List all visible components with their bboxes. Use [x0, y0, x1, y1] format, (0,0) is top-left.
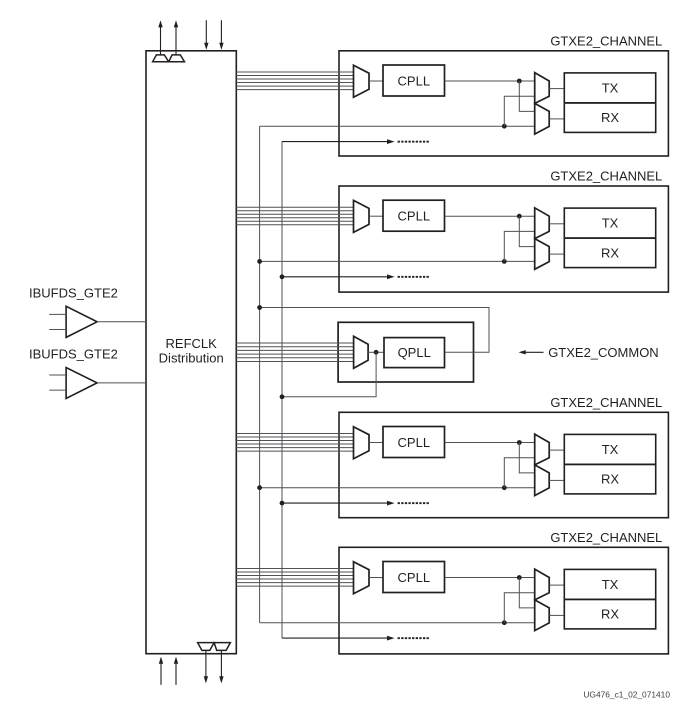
wire: refclk bundle to CPLL mux (6 lines) [236, 568, 353, 570]
wire: top output arrow 1 [160, 27, 162, 55]
wire: refclk bundle to CPLL mux (6 lines) [236, 433, 353, 435]
op-amp CPLL box [383, 65, 445, 96]
wire: top input arrow 2 [220, 20, 222, 44]
wire: mux to CPLL [369, 442, 383, 444]
wire: CPLL branch down to RX mux [519, 216, 534, 246]
wire: refclk bundle to CPLL mux (6 lines) [236, 206, 353, 208]
node: on line C [280, 394, 285, 399]
wire: dotted continuation arrow [282, 637, 389, 639]
wire: CPLL branch down to RX mux [519, 578, 534, 608]
svg-text:TX: TX [602, 216, 619, 231]
node: QPLL clock junction [502, 620, 507, 625]
svg-text:GTXE2_CHANNEL: GTXE2_CHANNEL [550, 395, 662, 410]
wire: QPLL branch up to TX mux [504, 96, 534, 126]
wire: refclk bundle to CPLL mux (6 lines) [236, 71, 353, 73]
wire: GTXE2_COMMON pointer arrow [524, 351, 544, 353]
node: QPLL clock junction [502, 485, 507, 490]
TX box [564, 569, 655, 599]
node: CPLL clock junction [517, 79, 522, 84]
svg-text:CPLL: CPLL [398, 435, 431, 450]
wire: dotted continuation arrow [282, 502, 389, 504]
wire: upper buffer input stubs [49, 313, 66, 315]
node: CPLL clock junction [517, 440, 522, 445]
wire: CPLL output to TX/RX muxes [445, 215, 535, 217]
svg-text:Distribution: Distribution [159, 351, 224, 366]
wire: TX mux output [549, 584, 564, 586]
mux: RX clock select [535, 600, 550, 631]
wire: bottom output arrow 2 [220, 650, 222, 677]
mux: RX clock select [535, 103, 550, 134]
wire: mux to QPLL [368, 351, 384, 353]
wire: upper buffer output [97, 321, 146, 323]
node: line B to channel 3 [257, 485, 262, 490]
mux: CPLL reference select [354, 65, 370, 97]
svg-text:GTXE2_COMMON: GTXE2_COMMON [548, 345, 659, 360]
buffer IBUFDS_GTE2 upper triangle [66, 306, 97, 337]
node: CPLL clock junction [517, 575, 522, 580]
node: line C to channel 2 [280, 274, 285, 279]
wire: QPLL output up to line B [260, 308, 489, 353]
node: QPLL clock junction [502, 259, 507, 264]
REFCLK Distribution box [146, 51, 236, 654]
svg-text:TX: TX [602, 577, 619, 592]
RX box [564, 238, 655, 268]
op-amp CPLL box [383, 200, 445, 231]
svg-text:CPLL: CPLL [398, 209, 431, 224]
wire: QPLL clock into channel [260, 260, 535, 262]
svg-text:IBUFDS_GTE2: IBUFDS_GTE2 [29, 286, 118, 301]
mux: RX clock select [535, 239, 550, 270]
GTXE2_CHANNEL box 4 [339, 547, 668, 654]
wire: bottom input arrow 2 [175, 663, 177, 685]
mux: TX clock select [535, 434, 550, 465]
wire: bottom input arrow 1 [160, 663, 162, 685]
wire: RX mux output [549, 479, 564, 481]
wire: QPLL clock into channel [260, 125, 535, 127]
wire: CPLL output to TX/RX muxes [445, 442, 535, 444]
mux: CPLL reference select [354, 200, 370, 232]
wire: refclk bundle to QPLL mux (6 lines) [236, 342, 353, 344]
node: line B to channel 2 [257, 259, 262, 264]
wire: RX mux output [549, 614, 564, 616]
wire: lower buffer output [97, 382, 146, 384]
mux: TX clock select [535, 569, 550, 600]
op-amp CPLL box [383, 427, 445, 458]
op-amp CPLL box [383, 562, 445, 593]
svg-text:RX: RX [601, 472, 619, 487]
wire: CPLL branch down to RX mux [519, 443, 534, 473]
GTXE2_COMMON box [338, 322, 473, 382]
svg-text:REFCLK: REFCLK [166, 336, 218, 351]
wire: bottom output arrow 1 [205, 650, 207, 677]
wire: CPLL branch down to RX mux [519, 81, 534, 111]
svg-text:UG476_c1_02_071410: UG476_c1_02_071410 [583, 689, 670, 699]
TX box [564, 208, 655, 238]
wire: mux to CPLL [369, 215, 383, 217]
clock buffer (bottom trapezoid pair) [198, 643, 215, 651]
clock buffer (top-left trapezoid pair) [153, 55, 169, 62]
svg-text:RX: RX [601, 607, 619, 622]
mux: RX clock select [535, 465, 550, 496]
mux (QPLL reference select) [354, 336, 369, 368]
wire: QPLL branch up to TX mux [504, 231, 534, 261]
svg-text:GTXE2_CHANNEL: GTXE2_CHANNEL [550, 530, 662, 545]
wire: mux to CPLL [369, 577, 383, 579]
GTXE2_CHANNEL box 1 [339, 51, 668, 156]
wire: RX mux output [549, 118, 564, 120]
mux: CPLL reference select [354, 427, 370, 459]
node: QPLL output on line B [257, 305, 262, 310]
wire: top output arrow 2 [175, 27, 177, 55]
wire: dotted continuation arrow [282, 276, 389, 278]
node: QPLL clock junction [502, 124, 507, 129]
wire: common mux clock vertical bus (line C) [281, 142, 283, 638]
wire: TX mux output [549, 88, 564, 90]
wire: TX mux output [549, 223, 564, 225]
RX box [564, 464, 655, 494]
GTXE2_CHANNEL box 3 [339, 412, 668, 517]
RX box [564, 599, 655, 629]
wire: QPLL branch up to TX mux [504, 458, 534, 488]
wire: mux output down to line C [282, 352, 376, 397]
svg-text:CPLL: CPLL [398, 570, 431, 585]
wire: CPLL output to TX/RX muxes [445, 577, 535, 579]
GTXE2_CHANNEL box 2 [339, 186, 668, 292]
node: line C to channel 3 [280, 501, 285, 506]
svg-text:QPLL: QPLL [398, 345, 431, 360]
mux: TX clock select [535, 208, 550, 239]
RX box [564, 103, 655, 132]
mux: CPLL reference select [354, 562, 370, 594]
wire: dotted continuation arrow [282, 141, 389, 143]
wire: mux to CPLL [369, 80, 383, 82]
wire: QPLL branch up to TX mux [504, 593, 534, 623]
TX box [564, 73, 655, 103]
wire: QPLL clock into channel [260, 622, 535, 624]
buffer IBUFDS_GTE2 lower triangle [66, 368, 97, 399]
svg-text:TX: TX [602, 80, 619, 95]
svg-text:IBUFDS_GTE2: IBUFDS_GTE2 [29, 346, 118, 361]
wire: QPLL clock into channel [260, 487, 535, 489]
svg-text:RX: RX [601, 245, 619, 260]
wire: QPLL clock vertical bus (line B) [259, 126, 261, 623]
svg-text:TX: TX [602, 442, 619, 457]
wire: CPLL output to TX/RX muxes [445, 80, 535, 82]
svg-text:GTXE2_CHANNEL: GTXE2_CHANNEL [550, 169, 662, 184]
node: CPLL clock junction [517, 214, 522, 219]
wire: RX mux output [549, 253, 564, 255]
mux: TX clock select [535, 73, 550, 104]
svg-text:RX: RX [601, 110, 619, 125]
TX box [564, 434, 655, 464]
wire: lower buffer input stubs [49, 374, 66, 376]
op-amp QPLL box [384, 338, 445, 368]
svg-text:GTXE2_CHANNEL: GTXE2_CHANNEL [550, 33, 662, 48]
wire: TX mux output [549, 449, 564, 451]
node: QPLL input junction [374, 350, 379, 355]
svg-text:CPLL: CPLL [398, 74, 431, 89]
wire: top input arrow 1 [205, 20, 207, 44]
